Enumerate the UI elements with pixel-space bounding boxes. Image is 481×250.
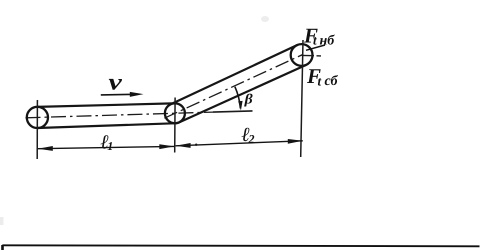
wire: horizontal belt bottom run — [38, 123, 178, 128]
svg-text:1: 1 — [107, 139, 113, 153]
svg-text:сб: сб — [325, 74, 339, 89]
frame: left corner stub — [1, 245, 4, 250]
node: angle reference leg (solid) — [213, 111, 253, 112]
dimension l2 right arrowhead — [288, 139, 303, 144]
node: P2 vertical axis / extension line — [174, 98, 176, 153]
dimension l1 right arrowhead — [159, 144, 174, 149]
leader line to belt top at P3 — [306, 45, 325, 50]
svg-text:β: β — [243, 92, 253, 107]
velocity arrow v — [101, 93, 132, 96]
angle beta arrowhead — [238, 101, 242, 111]
pulley P1 (left drum) — [27, 107, 48, 128]
dimension l1 left arrowhead — [38, 146, 53, 151]
node: inclined center line (dash-dot axis) — [164, 54, 303, 118]
dimension l2 left arrowhead — [176, 143, 191, 148]
svg-text:v: v — [109, 70, 123, 95]
pulley P3 (head drum, top right) — [291, 44, 313, 66]
angle beta arc — [235, 87, 241, 109]
frame: bottom border line of figure box — [2, 245, 479, 246]
node: P3 horizontal crosshair — [302, 54, 314, 56]
pulley P2 (middle drum) — [165, 103, 185, 123]
node: P3 vertical axis / extension line — [301, 40, 303, 157]
node: horizontal center line (dash-dot axis) — [26, 112, 214, 118]
svg-text:2: 2 — [248, 132, 255, 146]
svg-text:t: t — [313, 33, 317, 48]
wire: inclined belt bottom run — [177, 65, 306, 123]
dimension l2 line — [176, 141, 303, 146]
svg-text:t: t — [318, 73, 322, 88]
dimension l2 dot artifact — [195, 144, 197, 146]
decorative faint smudge (scan artifact) — [261, 16, 269, 22]
decorative faint edge patch (scan artifact) — [0, 217, 4, 225]
wire: horizontal belt top run — [37, 103, 173, 107]
dimension l1 line — [38, 146, 174, 148]
wire: inclined belt top run — [173, 45, 297, 103]
node: P1 vertical axis / extension line — [36, 100, 38, 159]
